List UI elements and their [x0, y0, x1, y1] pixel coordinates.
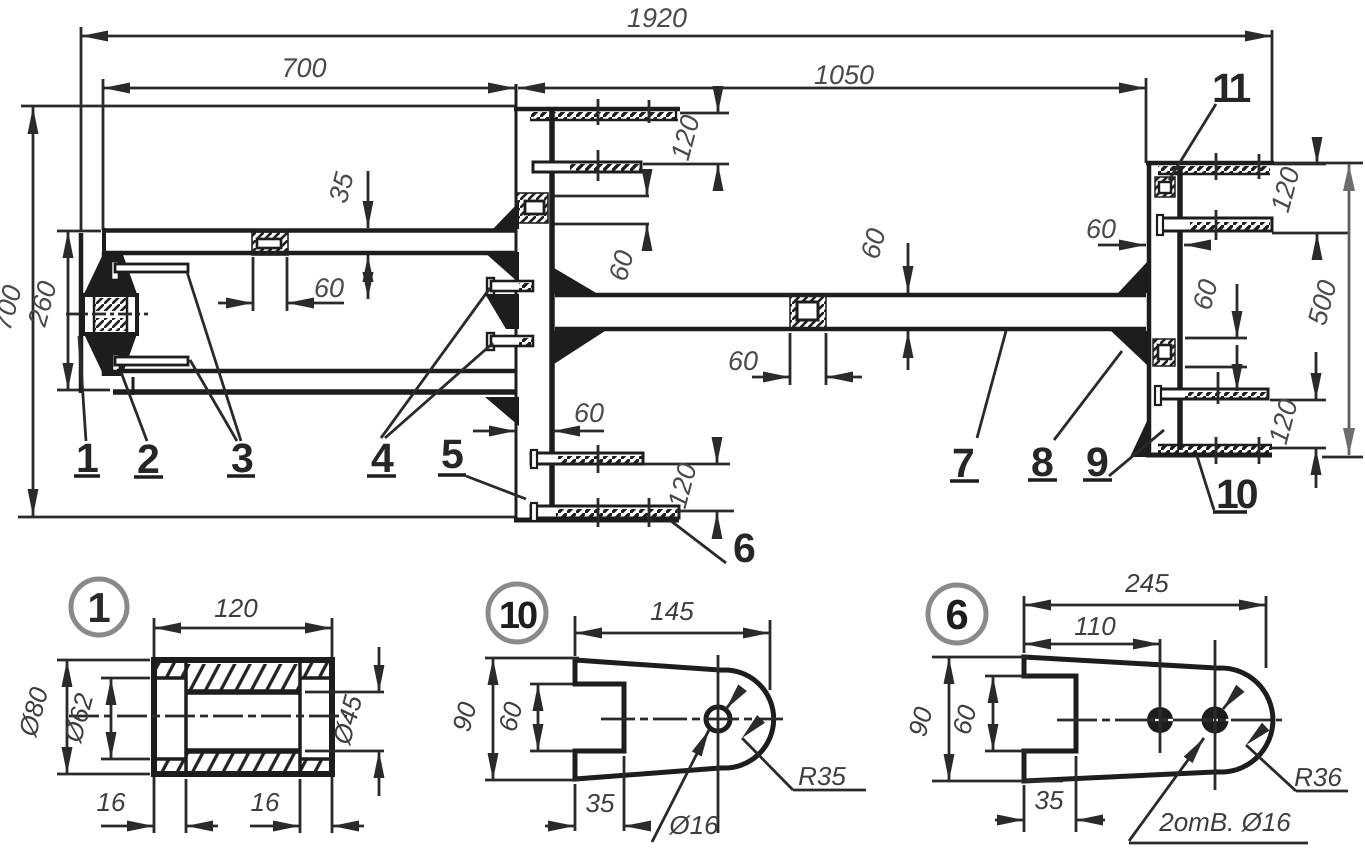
node on main beam (square tube): [790, 296, 826, 328]
gusset below right channel bottom: [1130, 421, 1147, 457]
svg-text:60: 60: [1086, 214, 1116, 244]
hub (part 1 in assembly): [66, 295, 148, 334]
wire: extension line y=105 (frame top level): [21, 105, 517, 108]
left axle bracket vertical plates: [81, 233, 104, 393]
svg-text:1: 1: [76, 435, 99, 481]
leader 2 holes D16 (part 6): [1129, 685, 1308, 843]
svg-text:1: 1: [87, 584, 110, 631]
leader D16 (part 10): [652, 684, 747, 842]
gusset cone below hub: [84, 334, 137, 376]
dimension 1920: [81, 3, 1272, 42]
node square on central channel (part 11 type): [516, 193, 548, 223]
dimension 260 left vertical: [22, 231, 110, 390]
leader and label 3 (two leaders): [187, 272, 255, 481]
svg-text:7: 7: [952, 440, 975, 486]
wire: extension line y=517 (frame bottom level): [18, 516, 515, 519]
svg-text:700: 700: [281, 53, 326, 83]
dimension D80: [12, 660, 150, 774]
balloon circle 6: [928, 585, 986, 643]
dimension 110: [1024, 611, 1160, 650]
svg-text:16: 16: [97, 787, 126, 817]
dimension 35 (part 6): [995, 756, 1105, 832]
lug plate second (part 10) on central channel: [533, 150, 641, 181]
lug plate top (part 6) on central channel: [530, 99, 678, 125]
svg-text:2отВ. Ø16: 2отВ. Ø16: [1158, 807, 1291, 837]
extension line x=1146 (1050 right): [1145, 78, 1148, 163]
dimension 120 (right channel top lugs): [1265, 137, 1348, 260]
svg-text:60: 60: [314, 273, 344, 303]
gusset above top rail at channel: [493, 202, 519, 229]
dimension 60 (top rail node): [218, 257, 344, 311]
svg-text:120: 120: [214, 593, 258, 623]
svg-text:4: 4: [371, 435, 394, 481]
gusset below lower rail at channel: [485, 397, 519, 426]
dimension 145: [575, 596, 770, 690]
leader and label 9: [1083, 430, 1164, 485]
dimension 60 (part 6): [946, 676, 1028, 751]
lower clevis lug (part 3): [112, 354, 188, 371]
leader and label 6: [671, 521, 756, 571]
leader and label 8: [1028, 351, 1122, 485]
lug plate third (part 10) lower on channel: [531, 445, 643, 473]
svg-text:3: 3: [231, 435, 254, 481]
dimension 700 left vertical: [0, 107, 39, 516]
extension line x=1272 (1920 right): [1271, 30, 1274, 161]
svg-text:60: 60: [574, 398, 604, 428]
gusset below beam at central channel: [554, 331, 605, 364]
svg-text:R35: R35: [798, 761, 846, 791]
leader and label 1: [74, 336, 100, 481]
central channel (vertical crossmember): [514, 84, 680, 520]
part 1 body outline: [154, 660, 332, 774]
svg-text:35: 35: [586, 788, 615, 818]
node on top rail (square tube crossmember): [252, 232, 288, 255]
svg-text:6: 6: [945, 591, 968, 638]
leader and label 10: [1197, 456, 1258, 517]
svg-text:11: 11: [1212, 65, 1251, 111]
part 6 outline: [1024, 657, 1273, 781]
dimension 500 (right channel height): [1302, 164, 1363, 457]
svg-text:60: 60: [728, 346, 758, 376]
dimension 60 (part 10): [492, 684, 573, 751]
dimension 120 (channel bottom lugs): [643, 437, 734, 539]
svg-text:9: 9: [1086, 439, 1109, 485]
svg-text:35: 35: [1035, 785, 1064, 815]
svg-text:5: 5: [441, 431, 464, 477]
lug plate third right (part 10): [1155, 372, 1268, 405]
svg-text:10: 10: [499, 595, 537, 637]
hole D16 part 10: [706, 707, 730, 731]
dimension 90 (part 6): [902, 657, 1063, 781]
leader and label 2: [121, 372, 163, 482]
dimension 35 (part 10): [545, 756, 651, 832]
dimension 60 (channel width bottom): [473, 398, 604, 437]
svg-text:Ø16: Ø16: [668, 810, 719, 840]
dimension D45: [305, 647, 385, 796]
lug B (part 4) left of channel: [487, 333, 533, 350]
dimension 16 left: [97, 779, 218, 833]
wire: extension line x=81 (1920 left): [80, 27, 83, 231]
svg-text:1050: 1050: [814, 60, 874, 90]
center lines part 10: [601, 655, 783, 833]
part 10 outline: [575, 660, 774, 779]
svg-text:1920: 1920: [627, 3, 687, 33]
top rail (upper beam 700 section): [102, 228, 516, 255]
dimension 60 (channel node to lug): [554, 169, 653, 284]
wire: extension line x=103 (700 left): [102, 79, 105, 230]
svg-text:2: 2: [137, 436, 160, 482]
svg-text:16: 16: [251, 787, 280, 817]
svg-text:6: 6: [733, 525, 756, 571]
svg-text:245: 245: [1124, 568, 1169, 598]
dimension 120 (right channel bottom lugs): [1263, 352, 1326, 488]
beam end block at channel left: [485, 294, 519, 329]
upper clevis lug (part 3): [111, 261, 188, 280]
gusset cone above hub: [84, 252, 137, 294]
dimension 1050: [518, 60, 1146, 94]
dimension 16 right: [250, 779, 364, 833]
svg-text:10: 10: [1216, 471, 1258, 517]
leader R35 (part 10): [738, 715, 866, 791]
gusset below beam at right channel: [1111, 331, 1147, 365]
lug plate top right (part 6): [1158, 153, 1270, 180]
center lines part 6: [1057, 639, 1282, 790]
lower rail (tow beam): [113, 371, 516, 395]
dimension 700 top: [103, 53, 515, 94]
leader and label 11: [1169, 65, 1251, 180]
lug plate second right (part 10/11 area): [1157, 210, 1272, 240]
dimension 60 (right channel node): [1185, 276, 1247, 391]
hole 2 part 6: [1200, 705, 1230, 735]
lug plate bottom (part 6) on channel: [531, 498, 679, 527]
main beam (1050 section): [555, 295, 1146, 329]
leader and label 4 (two leaders): [367, 288, 493, 481]
right channel (vertical member): [1146, 161, 1363, 457]
svg-text:8: 8: [1031, 439, 1054, 485]
gusset below top rail at channel: [484, 252, 519, 283]
svg-text:R36: R36: [1294, 762, 1342, 792]
dimension 120 (part 1): [154, 593, 332, 833]
leader and label 5: [438, 431, 526, 499]
lug plate bottom right (part 6, part 10 pointer): [1158, 437, 1272, 464]
node square part 11 on right channel: [1155, 177, 1175, 197]
dimension 120 (central channel top lugs): [643, 86, 729, 191]
balloon circle 10: [488, 584, 546, 642]
svg-text:145: 145: [650, 596, 694, 626]
leader R36 (part 6): [1242, 723, 1348, 792]
lug A (part 4) left of channel: [487, 278, 533, 295]
node square lower on right channel: [1153, 339, 1175, 366]
center line part 1: [69, 715, 347, 718]
leader and label 7: [950, 331, 1006, 486]
balloon circle 1: [71, 579, 127, 635]
hole 1 part 6: [1146, 706, 1174, 734]
dimension 60 (right channel width): [1086, 214, 1211, 251]
gusset above beam at central channel: [554, 268, 598, 294]
dimension 90 (part 10): [446, 658, 579, 780]
dimension 60 (beam node): [728, 333, 862, 385]
gusset above beam at right channel: [1118, 262, 1147, 293]
svg-text:110: 110: [1074, 611, 1116, 641]
dimension 245: [1024, 568, 1266, 668]
dimension D62: [57, 678, 150, 759]
dimension 60 (beam height): [855, 225, 914, 370]
dimension 35 (top rail height): [323, 168, 374, 299]
